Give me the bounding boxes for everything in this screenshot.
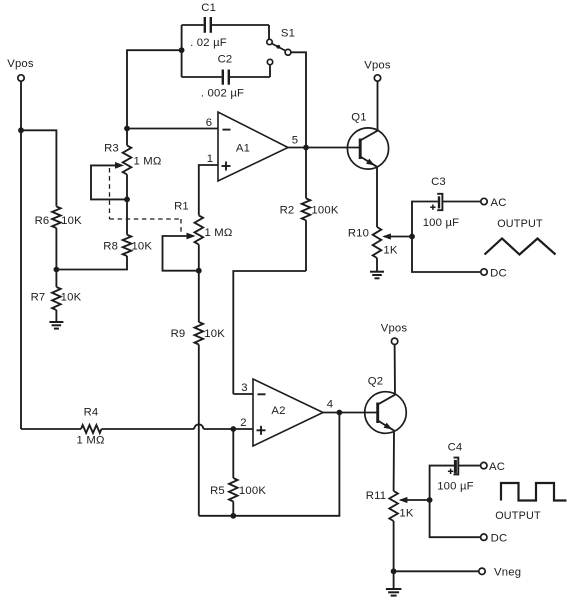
svg-text:R11: R11 [366, 490, 387, 502]
svg-text:100 µF: 100 µF [423, 217, 460, 229]
svg-text:1K: 1K [383, 245, 397, 257]
svg-text:100K: 100K [311, 205, 338, 217]
svg-text:R3: R3 [104, 143, 119, 155]
wire C1 C2 left branch vertical [181, 25, 183, 77]
svg-text:Vpos: Vpos [381, 323, 408, 335]
ground below R7 [49, 322, 63, 329]
terminal AC output 2 [481, 461, 505, 473]
node A1 inverting input junction [124, 126, 130, 132]
resistor R9 10K [171, 271, 226, 345]
terminal Vpos at Q2 collector [381, 323, 408, 395]
wiper of R10 [382, 233, 412, 239]
svg-text:AC: AC [490, 197, 506, 209]
square waveform [501, 483, 567, 501]
svg-text:6: 6 [206, 117, 212, 129]
svg-text:R6: R6 [35, 215, 50, 227]
resistor R1 1 MΩ potentiometer [174, 201, 232, 271]
wiper of R3 with shorting link [91, 162, 126, 199]
node A2 non-inverting input junction [230, 426, 236, 432]
wire C2 to S1 throw [269, 65, 271, 77]
resistor R2 100K [280, 148, 339, 272]
dashed gang line R3 to R1 [110, 168, 182, 234]
resistor R5 100K [210, 429, 266, 516]
wire Q1 emitter to R10 [376, 167, 378, 227]
svg-text:Vneg: Vneg [494, 566, 521, 578]
svg-text:OUTPUT: OUTPUT [497, 218, 543, 230]
svg-text:R10: R10 [348, 227, 369, 239]
capacitor C2 .002 µF [182, 54, 270, 100]
wire A2 inverting input pin 3 [233, 382, 253, 394]
resistor R3 1 MΩ potentiometer [104, 129, 161, 200]
svg-text:10K: 10K [131, 241, 152, 253]
resistor R6 [35, 207, 83, 229]
svg-text:R7: R7 [31, 292, 46, 304]
ground at bottom [386, 571, 402, 595]
wire hop over R9 line [194, 424, 203, 429]
node R11 wiper junction [427, 497, 433, 503]
svg-text:A1: A1 [236, 143, 250, 155]
svg-text:Q1: Q1 [351, 112, 366, 124]
wire R2 bottom to A2 inverting input [233, 271, 306, 394]
wire Q2 emitter to R11 [393, 431, 395, 491]
wiper of R11 [399, 497, 430, 503]
svg-text:10K: 10K [61, 292, 82, 304]
svg-text:2: 2 [240, 417, 246, 429]
node left-rail junction [18, 127, 24, 133]
wire R4 to A2 pin 2 [203, 428, 233, 430]
svg-text:Vpos: Vpos [364, 60, 391, 72]
triangle waveform [485, 239, 556, 255]
terminal Vneg [394, 566, 522, 578]
wire junction up to C1/C2 block [127, 50, 182, 128]
capacitor C3 100 µF [423, 176, 481, 229]
svg-text:DC: DC [491, 533, 508, 545]
node R1 bottom junction [196, 268, 202, 274]
svg-text:S1: S1 [281, 28, 295, 40]
svg-text:Vpos: Vpos [7, 58, 34, 70]
wire A1 output to Q1 base [306, 147, 360, 149]
wiper of R1 with shorting link [163, 233, 199, 271]
terminal DC output 2 [481, 533, 508, 545]
wire A1 output pin 5 [288, 135, 306, 148]
wire R6 node to R8 bottom [56, 256, 127, 270]
resistor R7 [31, 270, 82, 322]
svg-text:. 002 µF: . 002 µF [201, 88, 244, 100]
wire left rail vertical [20, 81, 22, 429]
op-amp A1 [218, 112, 288, 181]
resistor R8 [103, 199, 152, 256]
wire A2 output pin 4 [323, 399, 339, 413]
switch S1 [267, 28, 295, 65]
svg-text:1 MΩ: 1 MΩ [204, 227, 232, 239]
wire S1 common to A1 output node [291, 52, 306, 147]
node A2 output junction [337, 410, 343, 416]
label OUTPUT 1 [497, 218, 543, 230]
svg-text:1: 1 [207, 153, 213, 165]
svg-text:1 MΩ: 1 MΩ [77, 435, 105, 447]
svg-text:1K: 1K [399, 508, 413, 520]
node R10 wiper junction [409, 234, 415, 240]
svg-text:R4: R4 [84, 407, 99, 419]
svg-text:5: 5 [292, 135, 298, 147]
transistor Q1 [347, 112, 388, 170]
svg-text:C2: C2 [218, 54, 233, 66]
node R6/R7/R8 junction [54, 267, 60, 273]
svg-text:R2: R2 [280, 205, 295, 217]
terminal DC output 1 [481, 267, 507, 279]
wire A2 non-inverting input pin 2 [233, 417, 253, 429]
svg-text:100 µF: 100 µF [437, 481, 474, 493]
svg-text:. 02 µF: . 02 µF [190, 37, 227, 49]
svg-text:C1: C1 [201, 2, 216, 14]
svg-text:R9: R9 [171, 328, 186, 340]
wire R9 bottom rail to feedback [198, 345, 200, 516]
node R5 bottom junction [230, 513, 236, 519]
ground below R10 [370, 272, 384, 279]
svg-text:100K: 100K [239, 485, 266, 497]
resistor R4 1 MΩ [21, 407, 194, 447]
svg-text:C4: C4 [448, 442, 463, 454]
wire R6 to node [55, 228, 57, 270]
svg-text:Q2: Q2 [368, 376, 383, 388]
capacitor C4 100 µF [437, 442, 480, 493]
svg-text:10K: 10K [61, 215, 82, 227]
terminal Vpos at Q1 collector [364, 60, 391, 131]
resistor R10 1K potentiometer [348, 227, 398, 271]
svg-text:3: 3 [241, 382, 247, 394]
node R3 bottom junction [124, 197, 130, 203]
svg-text:10K: 10K [204, 328, 225, 340]
svg-text:A2: A2 [271, 405, 285, 417]
svg-text:OUTPUT: OUTPUT [495, 510, 541, 522]
wire A2 output to Q2 base [339, 412, 377, 414]
capacitor C1 .02 µF [182, 2, 269, 49]
svg-text:R8: R8 [103, 241, 118, 253]
svg-text:C3: C3 [431, 176, 446, 188]
wire C1 to S1 throw [268, 25, 270, 39]
terminal Vpos (left rail) [7, 58, 34, 81]
svg-text:1 MΩ: 1 MΩ [133, 156, 161, 168]
node A1 output junction [303, 145, 309, 151]
op-amp A2 [253, 379, 323, 446]
wire left rail to R6 column [21, 130, 56, 206]
terminal AC output 1 [481, 197, 507, 209]
svg-text:R5: R5 [210, 485, 225, 497]
node R11 bottom junction [391, 568, 397, 574]
wire A1 inverting input pin 6 [127, 117, 218, 129]
wire wiper to C4 and DC branch [430, 466, 481, 538]
svg-text:AC: AC [489, 461, 505, 473]
wire A1 non-inverting input pin 1 [199, 153, 218, 215]
svg-text:R1: R1 [174, 201, 189, 213]
label OUTPUT 2 [495, 510, 541, 522]
wire feedback bottom rail [199, 413, 340, 516]
svg-text:DC: DC [490, 267, 507, 279]
svg-text:4: 4 [327, 399, 333, 411]
transistor Q2 [365, 376, 407, 434]
resistor R11 1K potentiometer [366, 490, 414, 571]
wire wiper to C3 and DC branch [412, 202, 481, 273]
node C1/C2 left junction [179, 47, 185, 53]
